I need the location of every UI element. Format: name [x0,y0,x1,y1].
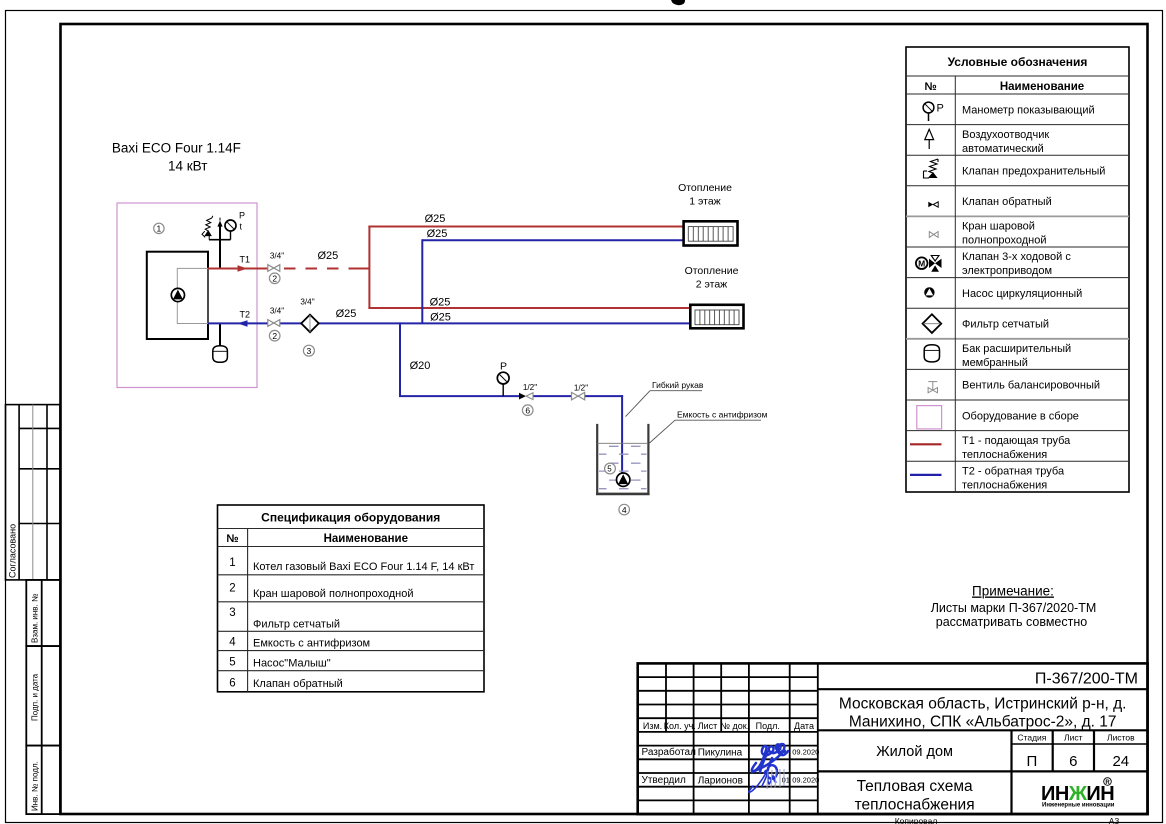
svg-text:№: № [924,81,936,93]
svg-text:Клапан обратный: Клапан обратный [253,678,343,690]
svg-text:5: 5 [229,657,235,669]
svg-text:Наименование: Наименование [324,533,408,545]
svg-text:5: 5 [607,464,612,473]
gauge P on fill line [497,372,509,396]
svg-text:Ø25: Ø25 [430,312,451,324]
item tag 5 [605,463,616,474]
ball valve 2 on T2 [268,320,280,327]
tank pump 5 [617,473,630,486]
svg-text:Емкость с антифризом: Емкость с антифризом [677,410,768,420]
svg-text:Кол. уч.: Кол. уч. [664,721,696,731]
svg-text:Котел газовый Baxi ECO Four 1.: Котел газовый Baxi ECO Four 1.14 F, 14 к… [253,561,474,573]
svg-text:Изм.: Изм. [643,721,662,731]
svg-text:Фильтр сетчатый: Фильтр сетчатый [253,619,340,631]
signature scribbles [752,744,788,779]
svg-text:Инв. № подл.: Инв. № подл. [31,761,40,811]
T1 branch floor 1 [368,226,683,228]
svg-text:4: 4 [229,637,236,649]
svg-text:2: 2 [229,583,235,595]
svg-text:Копировал: Копировал [895,816,938,824]
svg-text:2: 2 [272,274,277,284]
svg-text:T1: T1 [240,255,251,265]
svg-text:1: 1 [157,224,162,234]
svg-text:Ø25: Ø25 [427,228,448,240]
boiler body [147,252,208,339]
svg-text:T2: T2 [240,310,251,320]
title block header labels [643,721,814,731]
svg-text:теплоснабжения: теплоснабжения [962,449,1047,461]
svg-text:Фильтр сетчатый: Фильтр сетчатый [962,319,1049,331]
fill branch drop pipe D20 [399,322,401,396]
fill line horizontal [399,395,519,397]
T1 pipe to riser tee [356,268,369,270]
item tag 3 [303,345,314,356]
svg-text:Клапан предохранительный: Клапан предохранительный [962,166,1105,178]
svg-text:Ø25: Ø25 [425,213,446,225]
svg-text:Воздухоотводчик: Воздухоотводчик [962,129,1049,141]
title block outer [638,663,1148,814]
svg-text:полнопроходной: полнопроходной [962,235,1047,247]
svg-text:Стадия: Стадия [1017,733,1046,743]
T1 riser [368,226,370,310]
safety valve [202,216,213,240]
svg-text:6: 6 [525,405,530,415]
item tag 2 (T2) [269,330,280,341]
svg-text:Лист: Лист [698,721,718,731]
svg-text:Р: Р [937,103,944,115]
svg-text:Дата: Дата [794,721,814,731]
item tag 2 (T1) [269,273,280,284]
svg-text:теплоснабжения: теплоснабжения [855,797,975,814]
svg-text:Московская область, Истринский: Московская область, Истринский р-н, д. [839,696,1127,713]
svg-text:1: 1 [229,557,235,569]
svg-text:Лист: Лист [1064,733,1083,743]
svg-text:Ø25: Ø25 [430,297,451,309]
radiator floor 2 [690,305,743,329]
svg-text:Кран шаровой: Кран шаровой [962,221,1035,233]
svg-text:Тепловая схема: Тепловая схема [857,778,973,795]
svg-text:Клапан обратный: Клапан обратный [962,196,1052,208]
svg-text:Спецификация оборудования: Спецификация оборудования [261,511,440,525]
T1 supply pipe from boiler [208,268,268,270]
svg-text:Оборудование в сборе: Оборудование в сборе [962,410,1079,422]
svg-text:Ø25: Ø25 [336,308,357,320]
svg-text:Листы марки П-367/2020-ТМ: Листы марки П-367/2020-ТМ [931,601,1097,615]
svg-text:Разработал: Разработал [642,746,697,758]
svg-text:Пикулина: Пикулина [698,747,743,758]
svg-text:№ док.: № док. [720,721,749,731]
svg-text:6: 6 [229,678,235,690]
svg-text:Ларионов: Ларионов [698,775,743,786]
gauge branch pipe [209,239,231,241]
svg-text:Baxi ECO Four 1.14F: Baxi ECO Four 1.14F [112,141,241,156]
svg-text:09.2020: 09.2020 [792,748,819,757]
svg-text:3/4": 3/4" [270,307,284,316]
svg-text:теплоснабжения: теплоснабжения [962,479,1047,491]
cell Inv. No podl. [26,746,60,815]
svg-text:01: 01 [782,775,790,784]
P/t gauge [225,220,236,240]
company logo INZHIN [1041,778,1115,809]
expansion tank drop pipe [219,323,221,345]
T2 main return pipe [208,322,268,324]
svg-text:П: П [1027,753,1038,770]
svg-text:P: P [239,211,245,221]
svg-text:Насос"Малыш": Насос"Малыш" [253,658,331,670]
boiler internal loop [177,268,208,323]
boiler pump [171,288,184,301]
svg-text:Насос циркуляционный: Насос циркуляционный [962,288,1082,300]
svg-text:Ø25: Ø25 [318,250,339,262]
svg-text:4: 4 [622,505,627,515]
svg-text:1 этаж: 1 этаж [689,196,720,208]
svg-text:Манихино, СПК «Альбатрос-2», д: Манихино, СПК «Альбатрос-2», д. 17 [849,714,1117,731]
radiator floor 1 [684,221,738,245]
svg-text:Отопление: Отопление [685,265,739,277]
cell Vzam. inv. No [26,580,60,646]
label: flexible hose [626,380,704,417]
svg-text:Ø20: Ø20 [410,360,431,372]
svg-text:автоматический: автоматический [962,143,1044,155]
svg-text:рассматривать совместно: рассматривать совместно [936,615,1087,629]
svg-text:Бак расширительный: Бак расширительный [962,343,1071,355]
svg-text:электроприводом: электроприводом [962,265,1052,277]
svg-text:Жилой дом: Жилой дом [876,744,953,760]
T2 return header floor 1 [422,239,683,241]
svg-text:М: М [918,259,925,269]
svg-text:Условные обозначения: Условные обозначения [948,55,1088,69]
legend table frame [906,47,1129,492]
T1 flow arrow [238,265,248,272]
svg-text:3: 3 [307,346,312,356]
antifreeze liquid level dashes [597,442,648,444]
T1 dashed section [284,268,356,270]
cell Podp. i data [26,646,60,746]
svg-text:6: 6 [1069,753,1077,770]
svg-text:Взам. инв. №: Взам. инв. № [31,593,40,643]
svg-text:14 кВт: 14 кВт [168,159,207,174]
svg-text:R: R [1105,780,1110,786]
svg-text:P: P [500,361,507,373]
svg-text:2: 2 [272,331,277,341]
stage/sheet headers [1017,733,1135,743]
signer rows [642,746,743,786]
svg-text:Т1 - подающая труба: Т1 - подающая труба [962,435,1071,447]
check valve 6 [519,393,533,400]
item tag 6 [522,405,533,416]
svg-text:09.2020: 09.2020 [792,775,819,784]
svg-text:мембранный: мембранный [962,357,1028,369]
T2 return riser [421,239,423,323]
svg-text:3/4": 3/4" [300,298,314,307]
antifreeze tank walls [596,424,650,494]
svg-text:Кран шаровой полнопроходной: Кран шаровой полнопроходной [253,588,414,600]
svg-text:1/2": 1/2" [523,383,537,392]
svg-text:Утвердил: Утвердил [642,775,686,786]
riser pipe above boiler [219,224,221,269]
svg-text:№: № [226,533,238,545]
svg-text:Гибкий рукав: Гибкий рукав [652,380,704,390]
expansion tank [213,346,228,363]
svg-text:Согласовано: Согласовано [8,524,18,578]
svg-text:Листов: Листов [1107,733,1135,743]
svg-text:24: 24 [1112,753,1129,770]
svg-text:Т2 - обратная труба: Т2 - обратная труба [962,465,1065,477]
item tag 4 [619,504,630,515]
title block right grid [818,689,1148,814]
svg-text:Вентиль балансировочный: Вентиль балансировочный [962,380,1100,392]
svg-text:Емкость с антифризом: Емкость с антифризом [253,638,370,650]
svg-text:П-367/200-ТМ: П-367/200-ТМ [1035,671,1138,688]
svg-text:Клапан 3-х ходовой с: Клапан 3-х ходовой с [962,251,1071,263]
assembled equipment boundary (pink) [117,203,257,388]
ball valve on fill line [572,392,585,399]
svg-text:Подп. и дата: Подп. и дата [31,673,40,721]
svg-text:3: 3 [229,607,235,619]
svg-text:Примечание:: Примечание: [972,584,1054,599]
item tag 1 [154,223,164,233]
T1 branch floor 2 [368,307,690,309]
flexible hose drop into tank [621,395,623,473]
strainer filter 3 [301,315,319,333]
auto air vent [217,221,222,227]
svg-text:Манометр показывающий: Манометр показывающий [962,104,1095,116]
title block left grid [638,663,818,814]
svg-text:3/4": 3/4" [270,252,284,261]
svg-text:2 этаж: 2 этаж [696,279,727,291]
svg-text:Подл.: Подл. [756,721,780,731]
label: antifreeze tank [650,410,768,444]
approval stamp column (Soglasovano) [6,405,61,580]
svg-text:Инженерные инновации: Инженерные инновации [1042,803,1115,809]
svg-text:А3: А3 [1109,816,1120,824]
spec table frame [218,505,485,692]
ball valve 2 on T1 [268,265,280,272]
cut-off title glyph descender [671,0,685,5]
T2 flow arrow [238,320,248,327]
svg-text:Наименование: Наименование [1000,81,1084,93]
svg-text:Отопление: Отопление [678,182,732,194]
svg-text:1/2": 1/2" [574,384,588,393]
